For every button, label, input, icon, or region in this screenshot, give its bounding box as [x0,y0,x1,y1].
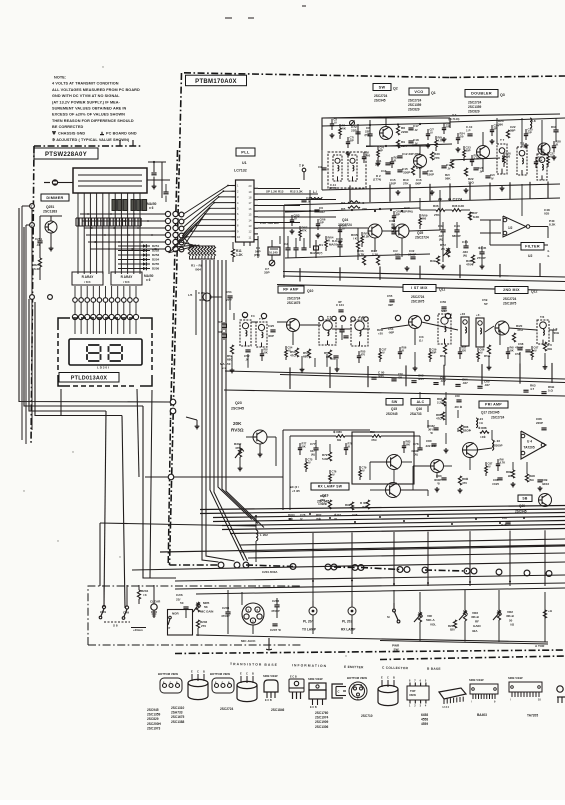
wire vco mid [322,118,483,190]
svg-text:2SC2724: 2SC2724 [220,707,234,711]
resistor R54 [303,349,311,359]
border tick marks [120,140,133,146]
wire mic area [186,590,277,636]
svg-text:D254: D254 [152,258,160,262]
svg-text:C COLLECTOR: C COLLECTOR [382,666,409,671]
svg-text:/50: /50 [460,134,464,138]
cap C8 [365,126,373,146]
xformer T9 [339,325,348,340]
pad border B3 [168,474,174,480]
resistor R251 [34,258,42,271]
resistor R88 [478,426,489,439]
pot MR5 [193,601,213,614]
cap right1 [551,125,559,132]
svg-text:2SC2724: 2SC2724 [503,297,517,301]
svg-text:C251: C251 [35,237,43,241]
svg-text:SW: SW [394,648,399,652]
cap C12 [397,152,420,158]
svg-text:L 202: L 202 [260,533,268,537]
pads U4 [521,434,545,455]
svg-text:✲2200P: ✲2200P [492,444,503,448]
label U2 [528,249,550,258]
wire bottom strip [313,585,545,642]
svg-text:4.: 4. [547,249,550,253]
svg-text:50: 50 [180,601,184,605]
svg-text:T/2: T/2 [441,309,446,313]
cap C44 [462,240,469,258]
svg-text:BOTTOM VIEW: BOTTOM VIEW [347,676,367,680]
svg-text:RF AMP: RF AMP [283,288,299,292]
label PTSW228A0Y [34,148,98,159]
svg-text:2SC2724: 2SC2724 [491,416,505,420]
resistor R105 [351,233,360,249]
wire xtal [258,236,280,260]
wire vco rail4 [450,158,500,160]
components rf extras [260,346,539,364]
ground mid2 [405,266,410,271]
label C56 [419,335,424,343]
svg-text:/.5/25: /.5/25 [492,482,499,486]
label SW Q15 [386,399,403,417]
svg-text:Q24: Q24 [342,218,348,222]
audio amp U4 [521,431,546,459]
cap C21 [485,173,494,181]
inductor Y3 [537,154,547,180]
label A TUN [535,644,545,648]
svg-text:E C B: E C B [310,706,317,709]
wire harness B [24,227,143,406]
board border bottom b [380,656,565,660]
label PRI AMP Q17 [479,401,508,420]
svg-text:C55: C55 [387,294,393,298]
cap C80 [425,439,437,448]
svg-text:6458: 6458 [421,713,428,717]
resistor R302 [234,442,244,458]
cap C150 [440,298,488,313]
svg-text:150P: 150P [427,173,434,177]
scan specks [23,66,346,656]
svg-text:B: B [203,670,205,674]
label Q23 [186,401,244,429]
svg-text:4559: 4559 [421,722,428,726]
svg-text:33/16: 33/16 [542,482,549,486]
resistor R58 [440,345,447,358]
transistor Q11 [409,316,422,329]
package can C [378,676,398,706]
svg-text:THEN REASON FOR DIFFERENCE SHO: THEN REASON FOR DIFFERENCE SHOULD [52,119,134,123]
svg-text:/ 8 K: / 8 K [123,280,130,284]
svg-text:V/EW: V/EW [409,693,416,697]
resistor network RA251 [112,200,147,211]
label c16b [415,178,422,186]
package can B [237,672,257,702]
svg-text:RX LAMP: RX LAMP [341,628,356,632]
xformer T4 [240,315,251,346]
svg-text:.00/ ✲: .00/ ✲ [454,405,463,409]
svg-text:NOTE:: NOTE: [54,76,66,80]
label DIMMER [41,194,69,201]
resistor array RA2 [111,272,142,285]
svg-text:S 8: S 8 [113,624,118,628]
svg-text:/0P: /0P [320,220,324,224]
svg-text:R5Ω: R5Ω [484,354,491,358]
pad border B1 [170,399,176,405]
svg-text:.0/: .0/ [334,120,337,124]
resistor R21 [445,160,454,181]
svg-text:C: C [387,676,389,680]
label Y1 [448,113,459,121]
label MA150 x2 [220,362,231,370]
ground vco2 [430,190,435,195]
connector hatch row [76,218,141,226]
cap C82 [427,424,439,435]
display pin rows [72,298,138,334]
svg-text:E: E [240,672,242,676]
board border PTSW left [31,146,34,445]
svg-text:/K: /K [328,238,331,242]
wire vco right components [497,118,556,154]
labels above bus [288,513,358,521]
svg-text:.0/: .0/ [534,348,537,352]
svg-text:E C B: E C B [265,699,272,702]
components tx extras [298,440,505,485]
svg-text:BE CORRECTED: BE CORRECTED [52,125,84,129]
svg-text:.0/: .0/ [332,472,335,476]
cap C81 [454,394,463,409]
resistor R90 [525,474,535,482]
label VCO Q1 [409,88,436,95]
svg-text:I ST MIX: I ST MIX [411,286,428,290]
svg-text:U 4: U 4 [527,440,532,444]
svg-text:560: 560 [406,442,411,446]
wire tx divider [224,390,565,396]
inductor T1 [333,155,342,181]
svg-text:47Ω: 47Ω [371,438,377,442]
svg-text:MIC GAIN: MIC GAIN [200,610,213,614]
cap C85 [492,478,503,486]
board border PTSW top [34,145,141,147]
svg-text:C12 33P (PN): C12 33P (PN) [402,152,421,156]
package TO39 can [347,676,367,701]
wire rf top [277,285,565,291]
svg-text:035: 035 [544,212,549,216]
label D8 MA150 [329,239,338,247]
svg-text:✲ ADJUSTED ( TYPICAL VALUE SHO: ✲ ADJUSTED ( TYPICAL VALUE SHOWN) [52,137,130,142]
svg-text:x 6: x 6 [149,206,154,210]
ground mid1 [441,264,446,269]
inductor L202 [256,530,268,541]
cap C15 [397,167,410,175]
svg-text:R10: R10 [416,166,422,170]
label ALC Q16 [410,399,430,417]
svg-text:2ND MIX: 2ND MIX [503,288,520,292]
svg-text:4 VOLTS AT TRANSMIT CONDITION: 4 VOLTS AT TRANSMIT CONDITION [52,82,119,86]
junction dots buses [255,513,525,585]
cap C97 [501,516,511,527]
package TO220 tab [308,677,326,709]
wire harness H [145,476,283,478]
svg-text:.0/: .0/ [414,128,418,132]
wire divider mid2 [283,276,565,282]
svg-text:2SC2724: 2SC2724 [415,236,429,240]
resistor R37 [468,211,480,220]
wire mid left vert [283,205,285,278]
cap C2 [284,242,291,250]
display housing [73,168,147,193]
svg-text:T 5: T 5 [259,317,264,321]
wire rf bottoms [225,371,565,383]
svg-text:1.2K: 1.2K [236,253,243,257]
svg-text:3/25: 3/25 [418,377,424,381]
svg-text:T.4: T.4 [243,315,247,319]
label MA150 x6 top [147,202,157,210]
svg-text:-00P: -00P [388,331,394,335]
svg-text:RF: RF [475,620,479,624]
svg-text:MIC JACK: MIC JACK [241,639,256,643]
svg-text:30P: 30P [432,350,437,354]
wire harness G [143,406,160,578]
pad labels row1 [251,314,364,321]
svg-text:220P: 220P [536,421,543,425]
svg-text:680: 680 [303,355,308,359]
grounds mid extras [290,225,397,244]
wire bottom lines [175,575,565,594]
svg-text:1 P: 1 P [466,129,471,133]
cap C112 [408,249,416,259]
cap C208 [221,606,231,618]
svg-text:SW: SW [379,85,386,89]
svg-text:+5 /25: +5 /25 [292,489,300,493]
note text block [52,76,140,142]
svg-text:RV3Ω: RV3Ω [231,428,244,433]
svg-text:CHASSIS GND: CHASSIS GND [58,132,85,136]
ground dimmer [49,246,54,251]
transistor Q2 [380,127,393,140]
wire bus2 [240,539,565,558]
svg-text:BOTTOM VIEW: BOTTOM VIEW [210,672,230,676]
resistor R98 [318,494,332,509]
package SIP10 TA7205 [508,676,542,702]
cap C18 [408,138,419,146]
inductor L1 [311,190,322,199]
wire xtal area [288,236,304,258]
vco inner box [328,152,366,188]
cap C9 [318,165,327,170]
svg-text:E C B: E C B [290,676,297,679]
svg-text:39P: 39P [388,303,393,307]
digit 2 [109,345,123,361]
svg-text:CH9: CH9 [123,611,129,615]
svg-text:R36: R36 [433,204,439,208]
resistor R10 [411,166,422,175]
wire display bus bundle [78,193,140,274]
svg-text:.0/: .0/ [288,348,291,352]
resistor R106 [357,249,366,265]
svg-text:470: 470 [361,352,366,356]
svg-text:22K: 22K [362,207,367,211]
wire housing feed [147,179,170,181]
label C22 [510,125,516,133]
label Y3b [540,149,545,153]
svg-text:2SC710: 2SC710 [361,714,373,718]
svg-text:4558: 4558 [421,718,428,722]
diodes D251-D256 [118,244,160,271]
legend type lists [147,706,538,730]
svg-text:220K: 220K [401,130,409,134]
svg-text:✲ R88: ✲ R88 [478,426,487,430]
svg-text:DOUBLER: DOUBLER [471,92,492,96]
svg-text:330P: 330P [403,171,410,175]
svg-text:2SC1388: 2SC1388 [171,720,185,724]
svg-text:C80: C80 [426,439,432,443]
svg-text:SIDE V/EW: SIDE V/EW [469,678,484,682]
svg-text:(PN): (PN) [254,253,260,257]
svg-text:22P: 22P [351,129,357,133]
wire q23 [240,437,276,466]
label 1ST MIX [403,285,445,292]
resistor R99 [345,502,354,510]
cap C86 [536,417,547,430]
digit 1 [87,345,101,361]
svg-text:.0/: .0/ [362,468,365,472]
svg-text:C207: C207 [270,628,278,632]
svg-text:47K: 47K [302,228,307,232]
vco outline [322,118,450,150]
resistor R9 [396,140,407,148]
cap C252 [151,162,156,184]
label L20 [553,327,560,335]
svg-text:BOTTOM VIEW: BOTTOM VIEW [158,672,178,676]
svg-text:/004: /004 [195,268,201,272]
svg-text:27P: 27P [226,298,232,302]
svg-text:C: C [246,672,248,676]
cap C10 [466,125,473,136]
svg-text:(11.7143): (11.7143) [448,117,459,121]
svg-text:820: 820 [450,628,455,632]
svg-text:/K: /K [394,158,397,162]
trimmer C7 [264,260,275,274]
IC U1 LC7132 [232,180,259,242]
wire bottom rail2 [330,638,548,644]
svg-text:32A: 32A [472,629,478,633]
wire opamp [480,220,548,245]
svg-text:INFORMATION: INFORMATION [292,663,327,668]
ground vco4 [500,186,505,191]
svg-text:(N): (N) [463,254,467,258]
resistor R84 [437,397,446,406]
label R23 [498,119,504,127]
resistor R60 [543,342,552,351]
package partial right [557,686,565,703]
svg-text:560: 560 [366,153,371,157]
svg-text:R36 8.2K: R36 8.2K [452,204,465,208]
label T7 [500,138,505,142]
svg-text:Ω./: Ω./ [419,339,423,343]
svg-text:SP 1.2K R13: SP 1.2K R13 [266,190,284,194]
svg-text:.0/: .0/ [430,130,433,134]
resistor R89 [506,470,515,478]
cap C55 [387,294,395,307]
svg-text:/ 2 3 4: / 2 3 4 [442,706,450,709]
svg-text:2SC1383: 2SC1383 [43,210,57,214]
cap C130 [188,291,211,302]
label 20mm [131,628,146,633]
svg-text:/K: /K [402,348,405,352]
switch S8 [104,622,130,628]
mic jack J201 [242,603,264,625]
label U1 [242,161,247,165]
svg-text:2SC945: 2SC945 [231,407,244,411]
svg-text:R ARAY: R ARAY [121,275,134,279]
label RX LAMP SW [311,483,349,490]
transistor Q251 [45,221,57,233]
resistor R22 [464,168,474,185]
cap C72 [351,124,361,144]
board border PTSW right [171,150,178,420]
label MA150 x6 [144,274,154,282]
wire vco rail2 [322,123,450,126]
transistor Q16 [431,460,444,473]
xformer T10 [438,309,523,344]
svg-text:T/3: T/3 [540,315,545,319]
svg-text:D255: D255 [152,262,160,266]
svg-text:E EMITTER: E EMITTER [344,665,364,669]
svg-text:2SC1909: 2SC1909 [315,720,329,724]
svg-text:Q16: Q16 [416,407,422,411]
svg-text:.0/: .0/ [382,350,385,354]
opamp U3 half [503,216,530,237]
svg-text:2SC1675: 2SC1675 [287,301,301,305]
svg-text:2.2K .068 ΩΩ: 2.2K .068 ΩΩ [260,221,279,225]
diode D8b [218,330,227,340]
svg-text:8Ω: 8Ω [337,438,342,442]
wire harness E [104,411,106,607]
svg-text:C44: C44 [462,240,468,244]
label PLL [236,148,255,156]
label RF AMP [278,286,314,293]
wire bottom dashdot [246,565,467,571]
label T2 [520,142,525,146]
svg-text:Q251: Q251 [46,205,54,209]
wire bundle PLL-to-bus [202,260,264,562]
svg-text:2.2K: 2.2K [364,234,370,238]
filters CF2 [460,312,484,347]
svg-text:.0/: .0/ [308,460,311,464]
svg-text:470: 470 [462,481,467,485]
svg-text:SUREMENT VALUES OBTAINED ARE I: SUREMENT VALUES OBTAINED ARE IN [52,107,127,111]
svg-text:C/25: C/25 [268,324,274,328]
transistor Q3 types [468,101,482,114]
svg-text:R99: R99 [345,503,351,507]
ground vco1 [396,190,401,195]
cap C3 [293,248,298,250]
svg-text:CH9: CH9 [100,610,106,614]
xformer T6 [319,315,336,345]
svg-text:3/25: 3/25 [378,374,384,378]
svg-text:PTBM170A0X: PTBM170A0X [195,79,237,85]
resistor R85 [436,412,445,421]
wire corner PTSW [148,161,166,198]
svg-text:D7: D7 [218,320,222,324]
svg-text:/8P: /8P [396,212,400,216]
connector pads CN251 [165,211,184,252]
wire line570 [132,562,565,570]
svg-text:DIMMER: DIMMER [46,196,63,200]
svg-text:2.2Ω: 2.2Ω [437,401,444,405]
pot RV2 [440,243,450,257]
svg-text:2SC1675: 2SC1675 [503,302,517,306]
arrow mic [266,638,272,650]
